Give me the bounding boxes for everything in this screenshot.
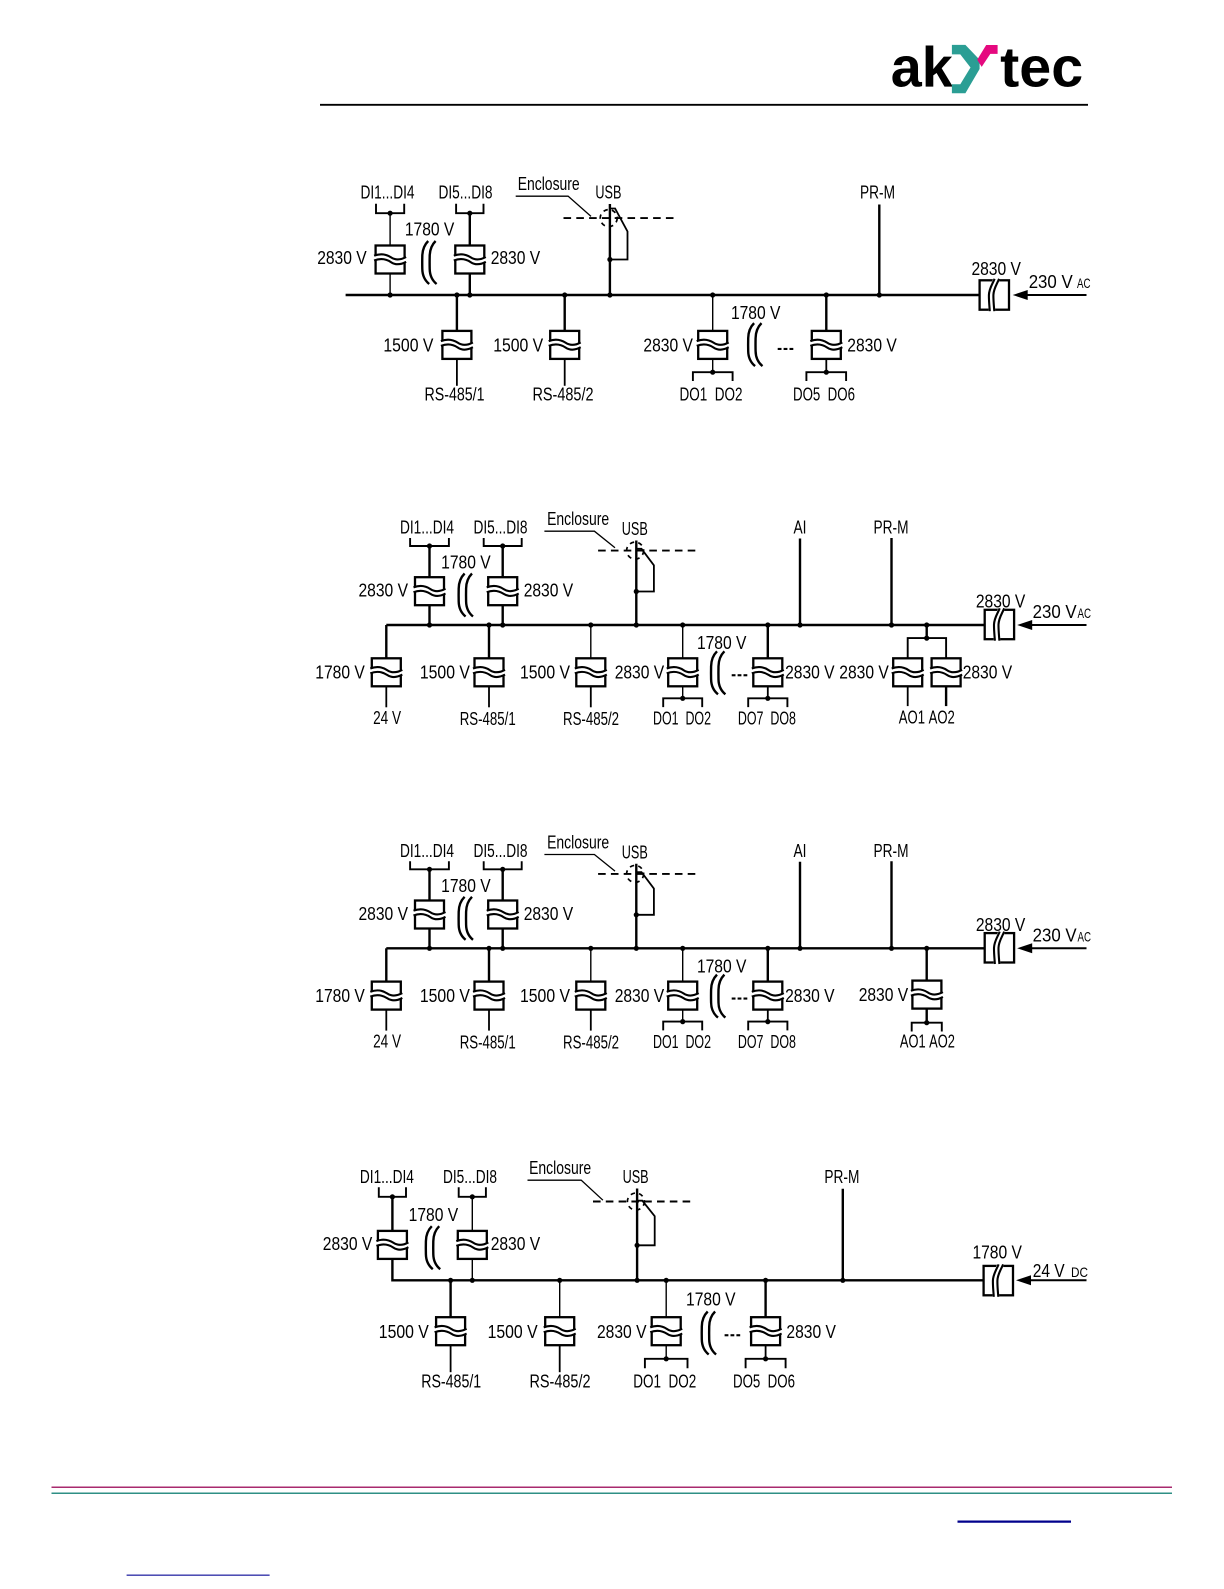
svg-text:2830 V: 2830 V: [597, 1322, 647, 1342]
svg-text:RS-485/1: RS-485/1: [460, 709, 516, 729]
svg-text:230 V: 230 V: [1029, 272, 1073, 292]
svg-text:RS-485/2: RS-485/2: [563, 1032, 619, 1052]
svg-text:24 V: 24 V: [373, 1031, 401, 1051]
svg-text:RS-485/2: RS-485/2: [530, 1372, 591, 1392]
svg-text:DI1...DI4: DI1...DI4: [400, 841, 454, 861]
svg-text:1500 V: 1500 V: [488, 1322, 538, 1342]
svg-text:2830 V: 2830 V: [839, 663, 889, 683]
svg-text:DO1 DO2: DO1 DO2: [653, 709, 711, 729]
svg-text:PR-M: PR-M: [860, 183, 895, 203]
svg-text:PR-M: PR-M: [874, 841, 909, 861]
svg-text:2830 V: 2830 V: [491, 1234, 541, 1254]
svg-text:AO1 AO2: AO1 AO2: [900, 1031, 955, 1051]
svg-text:1500 V: 1500 V: [520, 986, 570, 1006]
svg-text:DI1...DI4: DI1...DI4: [360, 1167, 414, 1187]
svg-text:DI5...DI8: DI5...DI8: [474, 518, 528, 538]
svg-text:2830 V: 2830 V: [785, 663, 835, 683]
svg-text:1500 V: 1500 V: [493, 336, 543, 356]
svg-text:1780 V: 1780 V: [315, 663, 365, 683]
svg-text:2830 V: 2830 V: [976, 592, 1026, 612]
svg-text:DO1 DO2: DO1 DO2: [680, 385, 743, 405]
svg-text:1500 V: 1500 V: [420, 986, 470, 1006]
svg-text:1780 V: 1780 V: [441, 876, 491, 896]
svg-text:2830 V: 2830 V: [971, 259, 1021, 279]
svg-text:DO1 DO2: DO1 DO2: [653, 1032, 711, 1052]
svg-text:RS-485/1: RS-485/1: [460, 1032, 516, 1052]
svg-text:230 V: 230 V: [1033, 602, 1077, 622]
svg-text:Enclosure: Enclosure: [547, 832, 609, 852]
svg-text:AI: AI: [794, 841, 807, 861]
svg-text:RS-485/1: RS-485/1: [425, 385, 485, 405]
svg-text:2830 V: 2830 V: [524, 904, 574, 924]
svg-text:2830 V: 2830 V: [615, 663, 665, 683]
svg-text:2830 V: 2830 V: [859, 985, 909, 1005]
svg-text:RS-485/2: RS-485/2: [533, 385, 594, 405]
svg-text:DI5...DI8: DI5...DI8: [474, 841, 528, 861]
svg-text:1780 V: 1780 V: [409, 1205, 459, 1225]
svg-text:1500 V: 1500 V: [379, 1322, 429, 1342]
svg-text:RS-485/1: RS-485/1: [421, 1372, 481, 1392]
svg-text:DO5 DO6: DO5 DO6: [733, 1372, 795, 1392]
svg-text:AO1 AO2: AO1 AO2: [899, 708, 955, 728]
svg-text:DI5...DI8: DI5...DI8: [439, 183, 493, 203]
svg-text:DO1 DO2: DO1 DO2: [633, 1372, 696, 1392]
svg-text:DO5 DO6: DO5 DO6: [793, 385, 855, 405]
svg-text:2830 V: 2830 V: [359, 581, 409, 601]
svg-text:1780 V: 1780 V: [731, 303, 781, 323]
svg-text:DC: DC: [1071, 1264, 1088, 1280]
svg-text:USB: USB: [595, 183, 621, 203]
svg-text:1780 V: 1780 V: [441, 553, 491, 573]
svg-text:1780 V: 1780 V: [315, 986, 365, 1006]
svg-text:1780 V: 1780 V: [405, 220, 455, 240]
svg-text:tec: tec: [1000, 36, 1083, 100]
svg-text:USB: USB: [623, 1167, 649, 1187]
svg-text:2830 V: 2830 V: [643, 336, 693, 356]
svg-text:DO7 DO8: DO7 DO8: [738, 1032, 796, 1052]
svg-text:RS-485/2: RS-485/2: [563, 709, 619, 729]
svg-text:Enclosure: Enclosure: [518, 174, 580, 194]
svg-text:ak: ak: [891, 36, 953, 100]
svg-text:1500 V: 1500 V: [520, 663, 570, 683]
svg-text:USB: USB: [622, 842, 648, 862]
svg-text:2830 V: 2830 V: [847, 336, 897, 356]
svg-text:1500 V: 1500 V: [420, 663, 470, 683]
svg-text:AI: AI: [794, 518, 807, 538]
svg-text:2830 V: 2830 V: [317, 248, 367, 268]
svg-text:2830 V: 2830 V: [785, 986, 835, 1006]
svg-text:2830 V: 2830 V: [786, 1322, 836, 1342]
svg-text:2830 V: 2830 V: [491, 248, 541, 268]
svg-text:DO7 DO8: DO7 DO8: [738, 709, 796, 729]
svg-text:DI1...DI4: DI1...DI4: [361, 183, 415, 203]
svg-text:230 V: 230 V: [1033, 926, 1077, 946]
svg-text:USB: USB: [622, 519, 648, 539]
svg-text:1780 V: 1780 V: [697, 633, 747, 653]
svg-text:PR-M: PR-M: [824, 1167, 859, 1187]
svg-text:1500 V: 1500 V: [383, 336, 433, 356]
svg-text:1780 V: 1780 V: [697, 956, 747, 976]
svg-text:2830 V: 2830 V: [963, 663, 1013, 683]
svg-text:2830 V: 2830 V: [524, 581, 574, 601]
svg-text:DI5...DI8: DI5...DI8: [443, 1167, 497, 1187]
svg-text:2830 V: 2830 V: [976, 915, 1026, 935]
svg-text:Enclosure: Enclosure: [547, 509, 609, 529]
svg-text:1780 V: 1780 V: [686, 1290, 736, 1310]
svg-text:AC: AC: [1078, 929, 1092, 945]
svg-text:24 V: 24 V: [1033, 1261, 1065, 1281]
svg-text:AC: AC: [1077, 275, 1091, 291]
svg-text:1780 V: 1780 V: [972, 1243, 1022, 1263]
svg-text:24 V: 24 V: [373, 708, 401, 728]
svg-text:2830 V: 2830 V: [359, 904, 409, 924]
svg-text:PR-M: PR-M: [874, 518, 909, 538]
svg-text:2830 V: 2830 V: [323, 1234, 373, 1254]
svg-text:AC: AC: [1078, 605, 1092, 621]
svg-text:2830 V: 2830 V: [615, 986, 665, 1006]
svg-text:DI1...DI4: DI1...DI4: [400, 518, 454, 538]
svg-text:Enclosure: Enclosure: [529, 1158, 591, 1178]
